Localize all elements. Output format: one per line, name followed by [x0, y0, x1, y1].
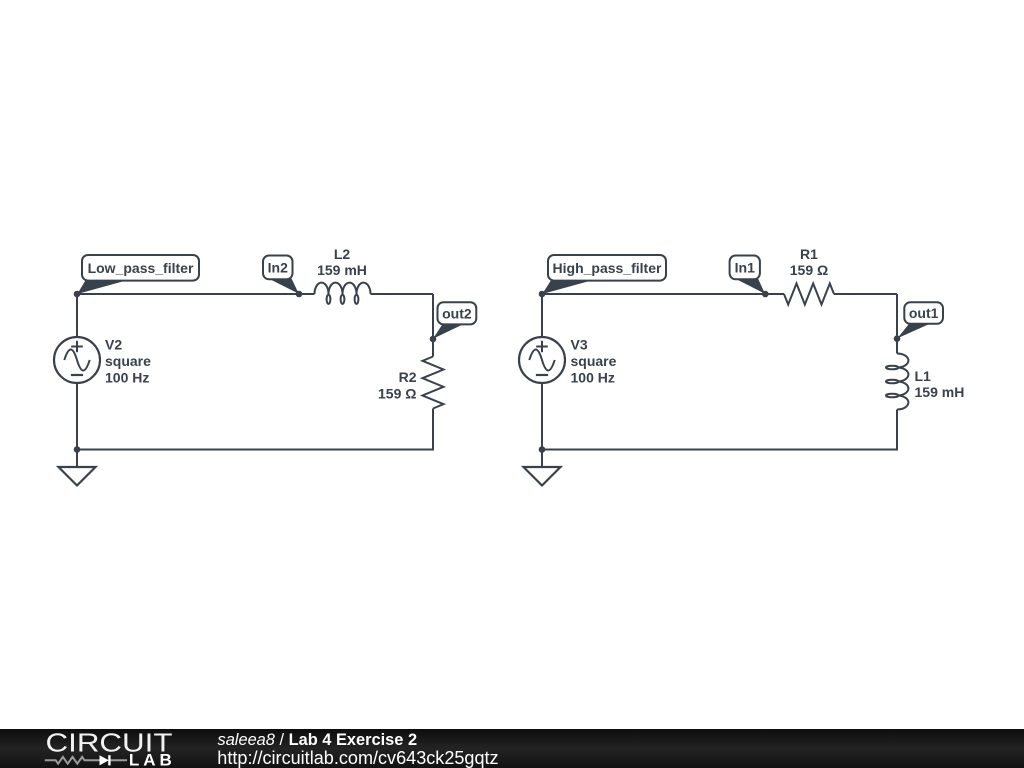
svg-text:saleea8 / Lab 4 Exercise 2: saleea8 / Lab 4 Exercise 2	[218, 731, 418, 749]
svg-text:159 Ω: 159 Ω	[790, 262, 828, 278]
svg-text:V2: V2	[105, 337, 122, 353]
svg-text:L1: L1	[915, 368, 932, 384]
svg-text:http://circuitlab.com/cv643ck2: http://circuitlab.com/cv643ck25gqtz	[217, 748, 498, 768]
svg-text:High_pass_filter: High_pass_filter	[553, 260, 662, 276]
svg-text:R2: R2	[399, 369, 417, 385]
svg-text:out2: out2	[442, 305, 472, 321]
svg-text:LAB: LAB	[129, 751, 176, 768]
svg-text:out1: out1	[909, 305, 939, 321]
svg-text:159 Ω: 159 Ω	[378, 386, 416, 402]
svg-text:Low_pass_filter: Low_pass_filter	[88, 260, 194, 276]
svg-text:In1: In1	[735, 259, 755, 275]
svg-text:159 mH: 159 mH	[317, 262, 367, 278]
svg-text:In2: In2	[268, 259, 288, 275]
svg-text:R1: R1	[800, 246, 818, 262]
svg-text:L2: L2	[334, 246, 351, 262]
svg-text:100 Hz: 100 Hz	[105, 369, 149, 385]
svg-text:159 mH: 159 mH	[915, 384, 965, 400]
svg-text:square: square	[571, 353, 617, 369]
svg-text:100 Hz: 100 Hz	[571, 369, 615, 385]
svg-text:V3: V3	[571, 337, 588, 353]
svg-text:square: square	[105, 353, 151, 369]
